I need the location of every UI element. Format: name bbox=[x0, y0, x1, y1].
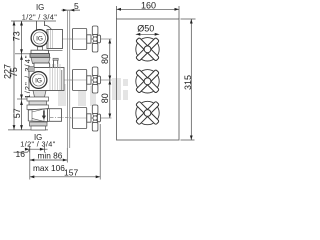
handle front H1 bbox=[136, 37, 160, 61]
handle front H3 bbox=[136, 101, 160, 125]
svg-text:57: 57 bbox=[12, 108, 22, 118]
svg-text:Ø50: Ø50 bbox=[137, 24, 154, 34]
row1 centerline bbox=[62, 38, 112, 40]
valve V1 body bbox=[47, 30, 63, 49]
dimension 227 line bbox=[13, 21, 16, 130]
dimension 5 (plate thickness) bbox=[62, 9, 81, 12]
check valve funnel bbox=[28, 109, 47, 122]
plate bbox=[117, 19, 180, 140]
svg-text:157: 157 bbox=[64, 167, 78, 177]
svg-text:80: 80 bbox=[100, 93, 110, 103]
svg-text:min 86: min 86 bbox=[38, 151, 63, 161]
hatched block under flange bbox=[31, 58, 50, 64]
wire: bottom extension line y128.5 bbox=[8, 129, 48, 131]
handle row3 bbox=[87, 105, 101, 131]
valve V1 IG circle bbox=[31, 30, 48, 47]
neck under V2 bbox=[33, 91, 46, 98]
svg-text:max 106: max 106 bbox=[33, 163, 65, 173]
row2 centerline bbox=[64, 79, 112, 81]
dimension 315 bbox=[181, 19, 196, 140]
escutcheon row1 bbox=[73, 29, 87, 50]
bottom port rings bbox=[30, 122, 48, 126]
svg-text:1/2" / 3/4": 1/2" / 3/4" bbox=[20, 140, 55, 149]
svg-text:75: 75 bbox=[9, 67, 19, 77]
union nut rings bbox=[27, 97, 49, 101]
handle front H2 bbox=[136, 69, 160, 93]
handle row2 bbox=[87, 67, 101, 93]
handle row1 bbox=[87, 26, 101, 52]
svg-text:73: 73 bbox=[11, 31, 21, 41]
wire: mid extension line y54 bbox=[15, 53, 31, 55]
row3 centerline bbox=[72, 117, 112, 119]
svg-text:16: 16 bbox=[16, 149, 26, 159]
dimension 160 bbox=[117, 6, 180, 19]
min/max extension lines bbox=[29, 146, 31, 180]
svg-text:5: 5 bbox=[74, 1, 79, 11]
escutcheon row3 bbox=[73, 108, 87, 129]
connector tube between V1 and V2 bbox=[53, 58, 58, 69]
svg-text:IG: IG bbox=[36, 35, 43, 42]
flange under V1 bbox=[38, 47, 43, 51]
svg-text:1/2" / 3/4": 1/2" / 3/4" bbox=[22, 13, 57, 22]
flow arrow down bbox=[42, 111, 46, 120]
valve V2 body (thermostat) bbox=[29, 68, 64, 91]
dimension chain 73/75/57 line bbox=[20, 21, 23, 130]
row3 dash centerline bbox=[50, 117, 72, 119]
svg-text:315: 315 bbox=[183, 75, 193, 90]
svg-text:80: 80 bbox=[100, 54, 110, 64]
dimension min86/max106 bbox=[30, 159, 68, 162]
dimension 16 bbox=[14, 146, 48, 153]
svg-text:IG: IG bbox=[35, 77, 42, 84]
dimension 80/80 bbox=[108, 39, 111, 118]
escutcheon row2 bbox=[73, 70, 87, 91]
valve V1 top port tube bbox=[37, 21, 52, 30]
centerlines over escutcheons bbox=[70, 39, 112, 118]
dimension Ø50 bbox=[136, 33, 159, 36]
dimension 157 bbox=[99, 124, 101, 180]
valve V2 IG circle bbox=[30, 72, 47, 89]
svg-text:160: 160 bbox=[141, 1, 156, 11]
watermark bbox=[58, 78, 128, 106]
wall plate (side view) bbox=[66, 11, 68, 148]
side stub row3 bbox=[47, 109, 61, 122]
wire: top extension line y21 bbox=[11, 20, 56, 22]
wire: mid extension line y99 bbox=[17, 98, 28, 100]
svg-text:IG: IG bbox=[36, 3, 44, 12]
